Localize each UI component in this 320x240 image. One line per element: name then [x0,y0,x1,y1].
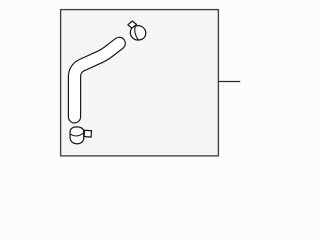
callout line [218,81,240,83]
hose (bent tube) outline [75,43,120,116]
bottom clamp body (cylinder) [70,127,84,144]
bottom clamp screw housing (tab) [84,130,91,137]
top clamp body (band silhouette) [130,26,146,40]
clamp screw head (diamond), top clamp [128,21,137,28]
top clamp band crease [135,26,138,40]
bottom clamp rim line [70,133,84,136]
frame box [61,10,219,156]
hose (bent tube) white body [75,43,120,116]
